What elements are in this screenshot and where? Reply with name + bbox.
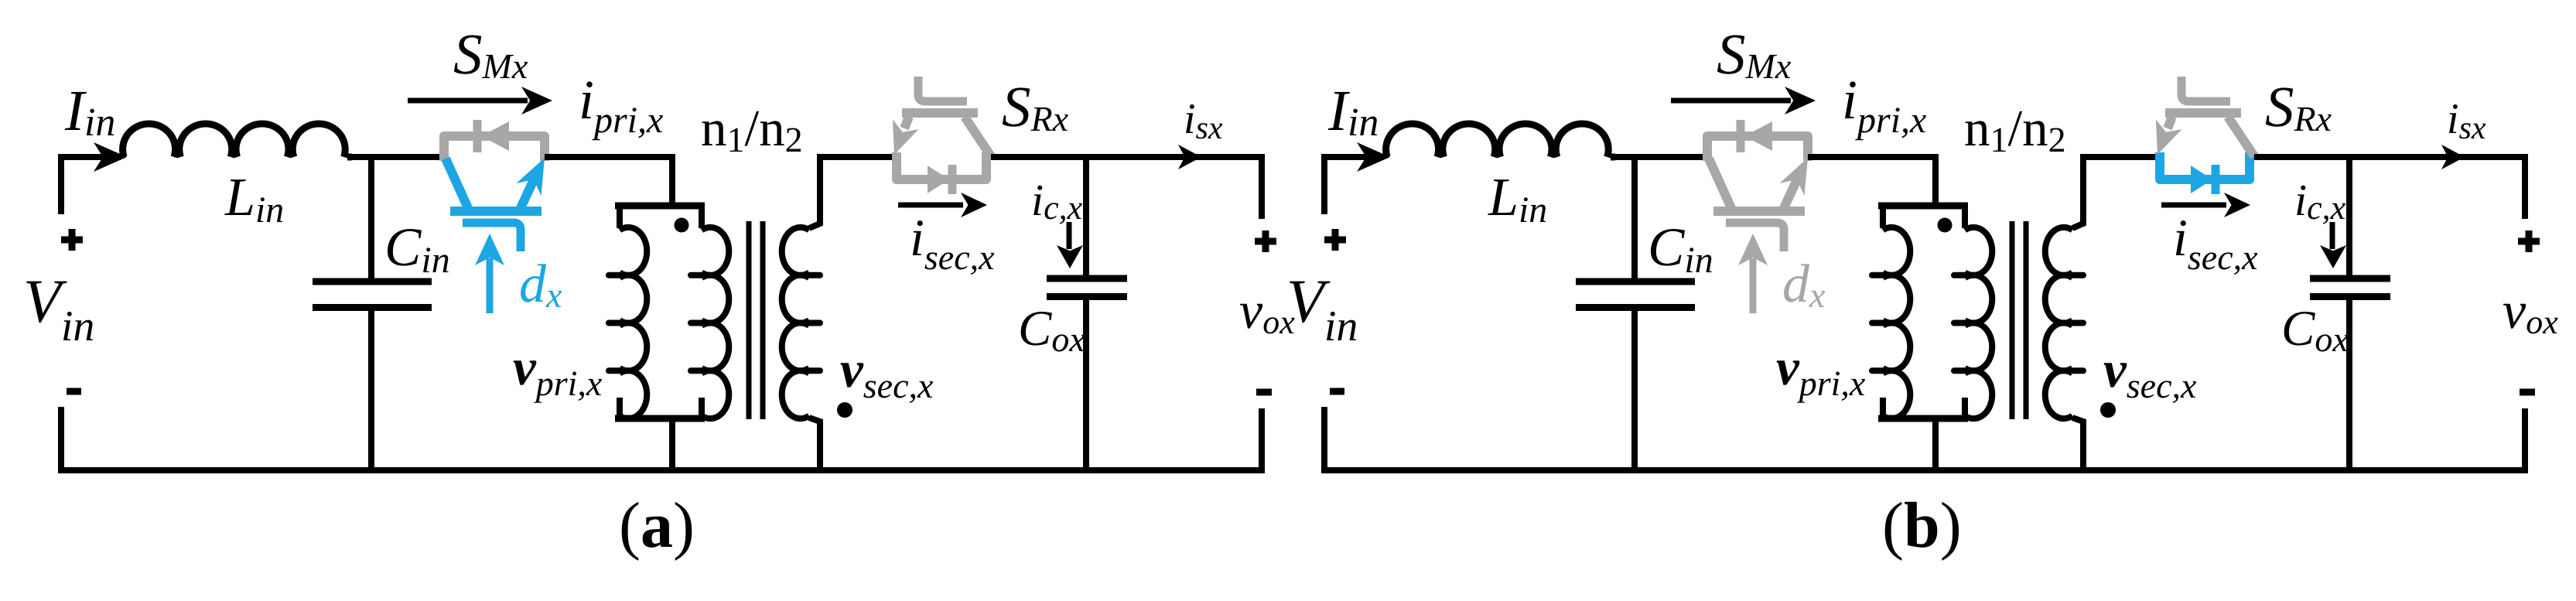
- input plus sign (b): [1324, 237, 1346, 244]
- capacitor C_in plates (b): [1576, 278, 1695, 285]
- transformer secondary dot (b): [2100, 402, 2116, 418]
- capacitor C_in stem upper (b): [1631, 154, 1638, 279]
- transformer core (a): [746, 221, 752, 419]
- capacitor C_ox plates (b): [2310, 275, 2390, 282]
- transformer core (b): [2010, 221, 2015, 419]
- current arrow I_in (a): [94, 142, 127, 172]
- wire input lower stub (b): [1321, 407, 1327, 470]
- transformer primary winding (b): [1878, 203, 1968, 210]
- input minus sign (a): [67, 388, 81, 395]
- current arrow S_Mx top (a): [408, 98, 528, 104]
- current arrow i_c,x (b): [2330, 222, 2335, 249]
- capacitor C_ox stem lower (a): [1083, 297, 1089, 473]
- switch S_Mx IGBT body (b): [1709, 159, 1731, 208]
- switch S_Rx diode (a): [928, 166, 949, 193]
- switch S_Mx IGBT body (a): [446, 159, 468, 208]
- wire S_Mx to transformer primary (b): [1808, 157, 1935, 206]
- output minus sign (a): [1256, 389, 1272, 396]
- capacitor C_ox stem upper (b): [2346, 154, 2352, 279]
- output plus sign (a): [1255, 238, 1276, 245]
- capacitor C_in stem upper (a): [368, 154, 374, 279]
- switch S_Rx IGBT body (a): [902, 108, 978, 118]
- capacitor C_in plates (a): [313, 278, 432, 285]
- gate drive arrow d_x (a): [487, 258, 494, 313]
- transformer primary dot (b): [1938, 218, 1952, 233]
- wire S_Rx to output (b): [2254, 157, 2525, 219]
- output plus sign (b): [2518, 238, 2540, 245]
- wire bottom rail (b): [1321, 467, 2528, 473]
- gate drive arrow d_x (b): [1750, 258, 1757, 313]
- switch S_Mx diode (a): [481, 121, 509, 151]
- wire output lower stub (b): [2522, 408, 2528, 470]
- transformer secondary winding (b): [2072, 154, 2083, 228]
- input minus sign (b): [1330, 388, 1344, 395]
- output minus sign (b): [2520, 389, 2535, 396]
- current arrow i_sec,x (a): [898, 203, 963, 208]
- current arrow i_sec,x (b): [2161, 203, 2226, 208]
- switch S_Rx emitter arrow (b): [2156, 119, 2182, 155]
- svg-text:(b): (b): [1882, 490, 1962, 562]
- current arrow I_in (b): [1357, 142, 1390, 172]
- transformer primary bottom lead (b): [1932, 418, 1939, 473]
- wire S_Rx to output (a): [991, 157, 1262, 219]
- svg-text:(a): (a): [619, 490, 695, 562]
- wire bottom rail (a): [58, 467, 1265, 473]
- wire input lower stub (a): [58, 407, 64, 470]
- capacitor C_ox plates (a): [1047, 275, 1127, 282]
- input plus sign (a): [61, 237, 83, 244]
- wire inductor to S_Mx (a): [347, 154, 446, 160]
- switch S_Mx antiparallel diode loop (b): [1707, 136, 1808, 161]
- current arrow i_c,x (a): [1067, 222, 1072, 249]
- transformer primary bottom lead (a): [669, 418, 675, 473]
- transformer secondary winding (a): [809, 154, 820, 228]
- switch S_Rx diode (b): [2191, 166, 2212, 193]
- switch S_Rx IGBT body (b): [2165, 108, 2241, 118]
- switch S_Rx diode loop (a): [897, 152, 986, 179]
- wire inductor to S_Mx (b): [1611, 154, 1709, 160]
- current arrow S_Mx top (b): [1671, 98, 1791, 104]
- capacitor C_ox stem upper (a): [1083, 154, 1089, 279]
- inductor L_in (b): [1386, 124, 1609, 157]
- current arrow i_sx (a): [1178, 145, 1201, 169]
- wire S_Mx to transformer primary (a): [545, 157, 672, 206]
- wire output lower stub (a): [1259, 408, 1265, 470]
- switch S_Mx antiparallel diode loop (a): [444, 136, 545, 161]
- switch S_Rx emitter arrow (a): [893, 119, 919, 155]
- capacitor C_in stem lower (b): [1631, 308, 1638, 473]
- capacitor C_in stem lower (a): [368, 308, 374, 473]
- wire input-left top stub and top wire (b): [1324, 157, 1384, 214]
- switch S_Mx diode (b): [1744, 121, 1772, 151]
- switch S_Rx diode loop (b): [2160, 152, 2250, 179]
- transformer primary winding (a): [615, 203, 705, 210]
- switch S_Mx emitter arrow (a): [516, 158, 545, 196]
- wire secondary to S_Rx (b): [2083, 154, 2158, 160]
- wire input-left top stub and top wire (a): [61, 157, 121, 214]
- transformer secondary dot (a): [837, 402, 852, 418]
- current arrow i_sx (b): [2441, 145, 2465, 169]
- wire secondary to S_Rx (a): [820, 154, 895, 160]
- capacitor C_ox stem lower (b): [2346, 297, 2352, 473]
- switch S_Mx emitter arrow (b): [1779, 158, 1808, 196]
- transformer primary dot (a): [675, 218, 689, 233]
- inductor L_in (a): [123, 124, 346, 157]
